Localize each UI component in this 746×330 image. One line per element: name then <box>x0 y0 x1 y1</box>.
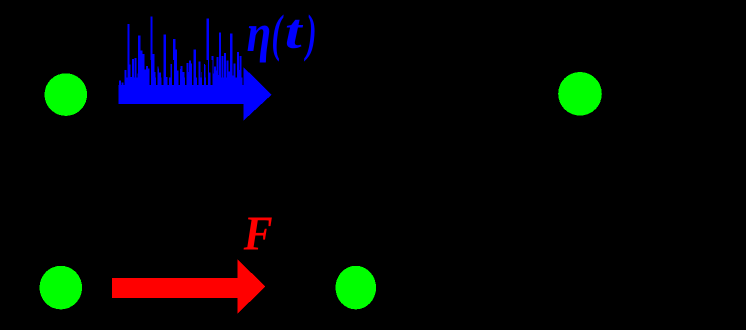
noise trace eta(t) spikes <box>119 17 243 87</box>
svg-text:η: η <box>247 3 272 63</box>
arrow (red, force F) <box>112 260 265 314</box>
black gaps between noise spike clusters <box>149 60 212 85</box>
particle top-right <box>558 72 602 116</box>
particle bottom-middle <box>336 266 377 310</box>
arrow (blue, noise drive) <box>118 67 271 121</box>
svg-text:F: F <box>243 206 273 260</box>
particle top-left <box>45 73 88 116</box>
svg-text:t: t <box>285 4 304 59</box>
particle bottom-left <box>40 266 83 310</box>
